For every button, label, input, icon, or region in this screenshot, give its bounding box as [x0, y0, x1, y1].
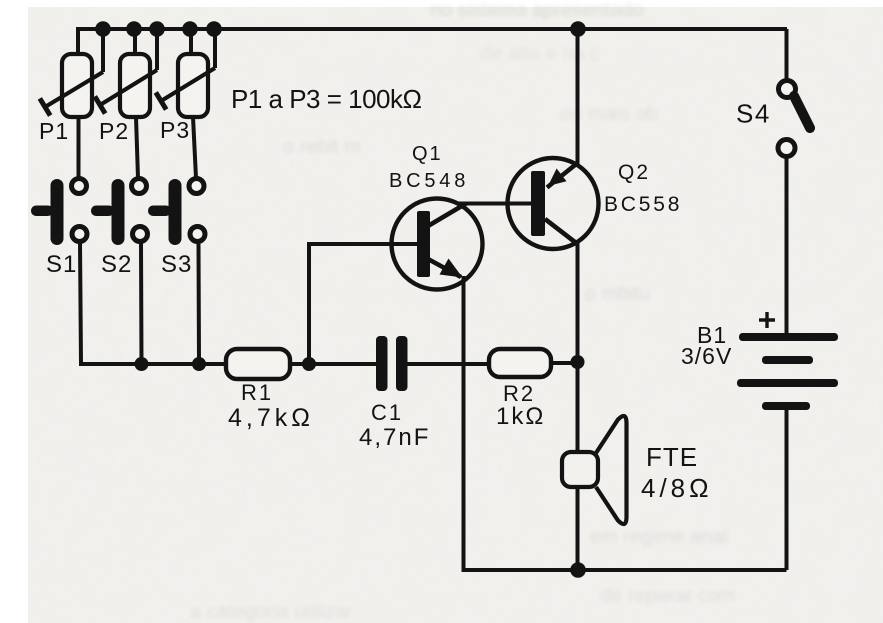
potentiometer P2 [95, 54, 157, 117]
node: R1/C1/base junction [302, 357, 316, 371]
battery B1 [737, 312, 838, 410]
loudspeaker FTE [562, 416, 627, 524]
svg-text:1kΩ: 1kΩ [496, 403, 545, 430]
wire: Q1 emitter down to bottom rail [464, 276, 787, 570]
capacitor C1 [376, 336, 408, 391]
svg-text:Q2: Q2 [618, 161, 650, 184]
wire: P1 wiper vertical to rail [101, 29, 105, 72]
node: R2/speaker junction [571, 355, 585, 369]
wire: R2 to center node [551, 361, 578, 365]
wire: top supply rail [78, 29, 787, 56]
wire: S2 down to bus [139, 243, 144, 364]
transistor Q1 BC548 [392, 199, 483, 290]
node: P3 top lead junction [182, 21, 198, 37]
svg-text:BC558: BC558 [604, 193, 682, 216]
svg-text:S4: S4 [736, 99, 771, 129]
node: P1 wiper junction [95, 21, 111, 37]
svg-text:4,7nF: 4,7nF [359, 424, 430, 451]
wire: S1 down to bottom bus [80, 243, 227, 364]
node: P3 wiper junction [206, 21, 222, 37]
svg-text:de reparar com: de reparar com [600, 585, 736, 607]
svg-text:C1: C1 [371, 400, 403, 425]
resistor R2 [489, 349, 551, 377]
node: P2 top lead junction [126, 21, 142, 37]
svg-text:ou mais ob: ou mais ob [560, 103, 658, 125]
wire: C1 to R2 [407, 362, 489, 366]
svg-text:S1: S1 [46, 251, 77, 278]
wire: P2 top lead [133, 29, 137, 56]
switch S4 [778, 29, 810, 157]
pushbutton switch S1 [31, 179, 87, 246]
node: P2 wiper junction [149, 21, 165, 37]
svg-text:R1: R1 [241, 380, 273, 405]
transistor Q2 BC558 [508, 158, 599, 249]
wire: rail down to Q2 emitter [576, 29, 580, 165]
wire: junction up and right to Q1 base [309, 244, 417, 364]
svg-text:Q1: Q1 [412, 143, 443, 165]
wire: P3 top lead [189, 29, 193, 56]
svg-text:S3: S3 [161, 251, 192, 278]
wire: S4 to battery [785, 157, 789, 334]
node: S3 bus junction [192, 357, 206, 371]
resistor R1 [226, 349, 290, 379]
wire: Q1 collector to Q2 base [457, 202, 531, 206]
wire: battery to bottom rail [785, 409, 789, 570]
svg-text:o mbitu: o mbitu [585, 283, 651, 305]
wire: S3 down to bus [197, 243, 202, 364]
svg-text:4,7kΩ: 4,7kΩ [228, 404, 314, 432]
node: S2 bus junction [135, 357, 149, 371]
potentiometer P1 [40, 54, 103, 117]
wire: P1 to S1 [77, 117, 81, 178]
svg-text:3/6V: 3/6V [681, 343, 732, 369]
wire: R1 to C1 [290, 362, 377, 366]
wire: Q2 collector down through R2 node to speaker and bottom rail [576, 242, 580, 570]
svg-text:o rebit m: o rebit m [283, 136, 361, 158]
node: Q2 emitter rail junction [570, 21, 586, 37]
svg-text:P1: P1 [39, 118, 69, 144]
svg-text:P1 a P3 = 100kΩ: P1 a P3 = 100kΩ [231, 84, 422, 114]
svg-text:de alto e na c: de alto e na c [480, 43, 600, 65]
svg-text:4/8Ω: 4/8Ω [641, 473, 713, 503]
svg-text:FTE: FTE [646, 442, 698, 472]
wire: P3 wiper vertical to rail [213, 29, 217, 68]
svg-text:P2: P2 [99, 118, 129, 144]
svg-text:BC548: BC548 [389, 170, 469, 192]
svg-text:P3: P3 [160, 117, 190, 143]
svg-text:a categoria utilizar: a categoria utilizar [190, 601, 353, 623]
svg-text:no sistema apresentado: no sistema apresentado [430, 0, 643, 21]
svg-text:em regime anal: em regime anal [590, 526, 728, 548]
pushbutton switch S3 [148, 179, 205, 246]
wire: P2 to S2 [136, 117, 138, 178]
potentiometer P3 [156, 54, 215, 117]
pushbutton switch S2 [91, 179, 148, 246]
node: speaker/bottom rail junction [570, 562, 586, 578]
svg-text:S2: S2 [101, 251, 132, 278]
wire: P2 wiper vertical to rail [155, 29, 159, 70]
wire: P3 to S3 [193, 117, 196, 178]
